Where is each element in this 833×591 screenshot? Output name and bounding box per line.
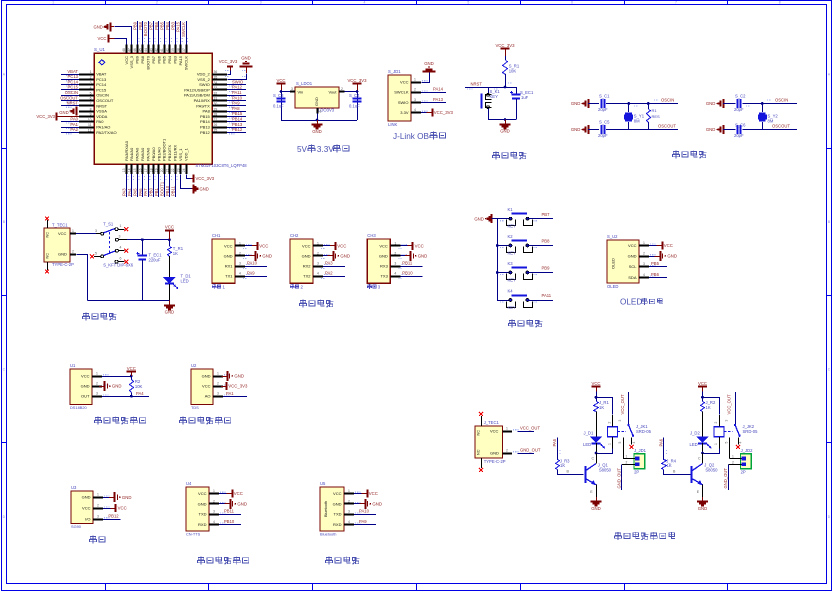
wire / net OSCIN (crystal 2) xyxy=(743,98,798,107)
svg-text:SWIO: SWIO xyxy=(232,79,244,84)
svg-text:K4: K4 xyxy=(508,289,514,294)
svg-text:1: 1 xyxy=(120,224,122,228)
ground (key circuit) xyxy=(474,214,497,223)
svg-text:OUT: OUT xyxy=(81,394,90,399)
svg-text:1K: 1K xyxy=(599,405,604,410)
svg-text:PB9: PB9 xyxy=(542,266,551,271)
svg-text:3: 3 xyxy=(90,81,92,85)
wire (power ground rail) xyxy=(77,255,170,301)
ground at MCU pin 35 VSS_2 xyxy=(228,55,253,79)
resistor J_R4 1K (base) xyxy=(662,437,691,474)
svg-text:J_D1: J_D1 xyxy=(584,431,594,436)
svg-text:VCC_3V3: VCC_3V3 xyxy=(228,384,248,389)
capacitor S_C4 0.1uF xyxy=(349,93,362,109)
svg-text:PB12: PB12 xyxy=(200,130,211,135)
svg-text:PA2/TX/AO: PA2/TX/AO xyxy=(96,130,116,135)
svg-text:PA5: PA5 xyxy=(132,188,137,196)
svg-text:J_D2: J_D2 xyxy=(690,431,700,436)
svg-text:R1: R1 xyxy=(652,108,658,113)
svg-text:VDDA: VDDA xyxy=(96,114,107,119)
svg-text:PB0/A0: PB0/A0 xyxy=(151,147,156,161)
svg-text:PA10: PA10 xyxy=(232,95,243,100)
svg-text:SWCLK: SWCLK xyxy=(183,56,188,71)
net PB11 (CH3 pin 3) xyxy=(400,261,422,267)
net PA9 (CH1 pin 4) xyxy=(245,271,267,277)
svg-text:CH1: CH1 xyxy=(212,233,221,238)
power VCC (CH1 pin 1) xyxy=(245,242,268,250)
wire xyxy=(280,90,290,120)
svg-text:VCC: VCC xyxy=(198,491,207,496)
net PB6 (OLED SDA) xyxy=(649,272,667,278)
svg-text:2: 2 xyxy=(239,251,241,255)
svg-text:PA14: PA14 xyxy=(433,87,444,92)
svg-text:5: 5 xyxy=(618,442,622,444)
label serial port 2 xyxy=(290,284,303,289)
svg-text:2P: 2P xyxy=(634,470,639,475)
svg-text:3: 3 xyxy=(643,262,645,266)
svg-text:VCC: VCC xyxy=(224,243,233,248)
svg-text:GND: GND xyxy=(424,61,434,66)
svg-text:GND: GND xyxy=(490,451,499,456)
svg-text:RES: RES xyxy=(652,114,661,119)
ground (crystal 2 bottom) xyxy=(706,125,724,134)
svg-text:GND: GND xyxy=(81,384,90,389)
svg-text:GND: GND xyxy=(418,254,428,259)
svg-text:20pF: 20pF xyxy=(598,133,608,138)
svg-text:1uF: 1uF xyxy=(521,95,529,100)
connector CH3 (serial port) xyxy=(367,233,407,283)
svg-text:S_C5: S_C5 xyxy=(599,120,610,125)
svg-text:2: 2 xyxy=(714,422,718,424)
svg-text:KEY: KEY xyxy=(508,305,517,310)
svg-text:220uF: 220uF xyxy=(149,258,161,263)
svg-text:PB6: PB6 xyxy=(154,21,159,30)
MCU U1 left pins 1-12 xyxy=(60,69,94,135)
svg-text:PB5: PB5 xyxy=(162,55,167,63)
title OLED display xyxy=(620,298,662,307)
svg-text:VCC: VCC xyxy=(276,78,285,83)
svg-text:26: 26 xyxy=(214,123,218,127)
svg-text:PC13: PC13 xyxy=(68,74,79,79)
svg-text:PC14: PC14 xyxy=(68,79,79,84)
svg-text:PA5: PA5 xyxy=(552,438,557,446)
svg-text:BOOT0: BOOT0 xyxy=(146,55,151,69)
svg-text:8: 8 xyxy=(90,107,92,111)
wire / net OSCOUT (crystal 2) xyxy=(743,124,798,130)
no-connect pin (T_TEC1 bottom) xyxy=(45,262,49,273)
svg-text:GND_OUT: GND_OUT xyxy=(520,448,541,453)
svg-text:Vout: Vout xyxy=(328,90,337,95)
svg-text:VBAT: VBAT xyxy=(67,69,78,74)
net PA11 (K4) xyxy=(528,293,554,300)
svg-text:4: 4 xyxy=(90,86,92,90)
svg-text:2: 2 xyxy=(626,461,628,465)
svg-text:CH3: CH3 xyxy=(367,233,376,238)
no-connect pin (J_TEC1 top) xyxy=(479,412,483,426)
button K3 KEY xyxy=(497,261,537,283)
ground (relay J_Q2) xyxy=(697,497,708,511)
svg-text:28: 28 xyxy=(214,113,218,117)
wire xyxy=(701,396,719,415)
svg-text:21: 21 xyxy=(166,168,170,172)
svg-text:S_KFT DIP-6X6: S_KFT DIP-6X6 xyxy=(103,263,134,268)
wire (key ground rail) xyxy=(496,219,499,300)
svg-text:35: 35 xyxy=(214,76,218,80)
net PA5 (relay input) xyxy=(552,438,561,454)
svg-text:PA9: PA9 xyxy=(247,271,255,276)
capacitor S_C5 20pF xyxy=(588,120,610,138)
svg-text:37: 37 xyxy=(182,48,186,52)
resistor J_R2 1K xyxy=(701,397,716,436)
svg-text:OSCOUT: OSCOUT xyxy=(60,95,78,100)
svg-text:13: 13 xyxy=(122,168,126,172)
svg-text:U2: U2 xyxy=(191,363,197,368)
title reset circuit xyxy=(493,152,527,159)
svg-text:19: 19 xyxy=(155,168,159,172)
svg-text:PA11/USB/DM: PA11/USB/DM xyxy=(184,93,210,98)
svg-text:GND: GND xyxy=(224,253,233,258)
net GND_OUT (relay J_JD1) xyxy=(617,465,622,491)
MCU U1 bottom pins 13-24 xyxy=(122,164,187,197)
svg-text:2: 2 xyxy=(643,252,645,256)
net PB5 (OLED SCL) xyxy=(649,261,667,266)
svg-text:J_TEC1: J_TEC1 xyxy=(484,420,500,425)
svg-text:PA0: PA0 xyxy=(70,117,78,122)
net PB7 (K1) xyxy=(528,212,554,219)
svg-text:VCC: VCC xyxy=(400,80,409,85)
svg-text:GND: GND xyxy=(112,384,122,389)
svg-text:SCL: SCL xyxy=(629,264,638,269)
svg-text:3: 3 xyxy=(618,420,622,422)
svg-text:2: 2 xyxy=(96,382,98,386)
power flag VCC (LDO input) xyxy=(276,78,285,92)
net PB10 (CH3 pin 4) xyxy=(400,271,422,277)
svg-text:U5: U5 xyxy=(320,481,326,486)
svg-text:1: 1 xyxy=(317,241,319,245)
svg-text:TYPE-C-2P: TYPE-C-2P xyxy=(484,459,506,464)
power VCC_3V3 at MCU pin 36 VDD_2 xyxy=(219,59,238,77)
svg-text:2: 2 xyxy=(217,382,219,386)
svg-text:VCC_3V3: VCC_3V3 xyxy=(196,176,215,181)
svg-text:TX2: TX2 xyxy=(303,274,311,279)
display S_U2 OLED xyxy=(607,234,656,289)
capacitor S_EC1 1uF xyxy=(510,87,534,120)
svg-text:VSS_3: VSS_3 xyxy=(129,55,134,68)
svg-text:GND: GND xyxy=(202,374,211,379)
svg-text:OSCOUT: OSCOUT xyxy=(772,124,790,129)
svg-text:3: 3 xyxy=(239,262,241,266)
svg-text:OSCIN: OSCIN xyxy=(661,98,674,103)
svg-text:48: 48 xyxy=(122,48,126,52)
svg-text:PA6: PA6 xyxy=(659,438,664,446)
svg-text:PA1/AO: PA1/AO xyxy=(96,125,110,130)
svg-text:PB12: PB12 xyxy=(232,127,243,132)
svg-text:VCC_3V3: VCC_3V3 xyxy=(36,114,55,119)
svg-text:GND: GND xyxy=(198,501,207,506)
svg-text:5: 5 xyxy=(95,252,97,256)
svg-text:PB10/TX: PB10/TX xyxy=(167,145,172,161)
svg-text:NRST: NRST xyxy=(96,103,107,108)
svg-text:STM32F103C8T6_LQFP48: STM32F103C8T6_LQFP48 xyxy=(195,163,247,168)
svg-text:KEY: KEY xyxy=(490,94,499,99)
wire / net OSCOUT (crystal 1) xyxy=(606,124,678,130)
svg-text:PB13: PB13 xyxy=(200,125,211,130)
svg-text:VCC: VCC xyxy=(337,243,346,248)
svg-text:PB10: PB10 xyxy=(224,519,235,524)
svg-text:PA10: PA10 xyxy=(247,261,258,266)
capacitor T_EC1 220uF xyxy=(137,240,163,301)
svg-text:PB14: PB14 xyxy=(200,119,211,124)
svg-text:9: 9 xyxy=(90,113,92,117)
no-connect pin (J_TEC1 bottom) xyxy=(479,458,483,472)
svg-text:PB8: PB8 xyxy=(138,21,143,30)
power flag VCC_3V3 (LDO output) xyxy=(347,78,367,92)
svg-text:18: 18 xyxy=(149,168,153,172)
svg-text:J-Link OB: J-Link OB xyxy=(393,132,429,141)
svg-text:PA15: PA15 xyxy=(176,21,181,32)
svg-text:LED: LED xyxy=(181,279,189,284)
power VCC (CH2 pin 1) xyxy=(323,242,346,250)
svg-text:PA4: PA4 xyxy=(127,188,132,196)
svg-text:TXD: TXD xyxy=(334,512,342,517)
svg-text:SWIO: SWIO xyxy=(398,100,409,105)
svg-text:TDS: TDS xyxy=(191,405,199,410)
svg-text:PB11: PB11 xyxy=(224,509,235,514)
resistor J_R3 1K (base) xyxy=(556,437,584,474)
svg-text:45: 45 xyxy=(139,48,143,52)
svg-text:PB5: PB5 xyxy=(651,261,660,266)
relay J_JK1 switch xyxy=(618,392,637,458)
svg-text:4: 4 xyxy=(364,0,366,4)
svg-text:10K: 10K xyxy=(135,384,143,389)
svg-text:PB12: PB12 xyxy=(108,513,119,518)
svg-text:0.1uF: 0.1uF xyxy=(349,104,360,109)
wire xyxy=(595,396,613,415)
svg-text:14: 14 xyxy=(128,168,132,172)
svg-text:7: 7 xyxy=(675,0,677,4)
svg-text:K1: K1 xyxy=(508,207,514,212)
svg-text:GND: GND xyxy=(571,101,581,106)
svg-text:25: 25 xyxy=(214,129,218,133)
svg-text:2: 2 xyxy=(608,422,612,424)
svg-text:PA1: PA1 xyxy=(226,391,234,396)
svg-text:VCC_3V3: VCC_3V3 xyxy=(434,110,454,115)
net PB10 (voice RXD) xyxy=(219,519,241,525)
svg-text:OLED: OLED xyxy=(620,298,642,307)
svg-text:PA10/RX: PA10/RX xyxy=(194,98,210,103)
svg-text:PA9: PA9 xyxy=(359,519,367,524)
svg-text:5: 5 xyxy=(724,442,728,444)
LED J_D1 xyxy=(583,431,605,455)
svg-text:4: 4 xyxy=(739,442,743,444)
svg-text:TXD: TXD xyxy=(199,512,207,517)
svg-text:PB11: PB11 xyxy=(402,261,413,266)
svg-text:Bluetooth: Bluetooth xyxy=(324,501,328,517)
net PA9 (bluetooth RXD) xyxy=(354,519,376,525)
transistor J_Q1 S8050 xyxy=(567,453,612,497)
wire (LDO ground rail) xyxy=(281,114,357,122)
svg-text:2: 2 xyxy=(506,448,508,452)
svg-text:1: 1 xyxy=(414,78,416,82)
svg-text:VCC_OUT: VCC_OUT xyxy=(620,394,625,414)
svg-text:11: 11 xyxy=(88,123,92,127)
power VCC (bluetooth pin 1) xyxy=(354,490,378,498)
relay J_JK2 switch xyxy=(724,392,743,458)
svg-text:4: 4 xyxy=(643,273,645,277)
svg-text:SWCLK: SWCLK xyxy=(181,22,186,37)
title serial port circuit xyxy=(300,300,334,307)
svg-text:1: 1 xyxy=(96,372,98,376)
svg-text:CN-TTS: CN-TTS xyxy=(186,532,201,537)
connector S_JD1 LINK xyxy=(388,69,428,127)
svg-text:VCC: VCC xyxy=(628,243,637,248)
svg-text:PA0: PA0 xyxy=(96,119,104,124)
connector J_JD2 2P xyxy=(728,448,753,475)
svg-text:2: 2 xyxy=(213,499,215,503)
svg-text:4: 4 xyxy=(394,272,396,276)
title relay control circuit xyxy=(615,532,675,539)
crystal S_Y2 8M xyxy=(758,104,778,130)
svg-text:20: 20 xyxy=(160,168,164,172)
relay J_JK2 SRD-05 coil xyxy=(703,415,759,454)
svg-text:PB3: PB3 xyxy=(170,21,175,30)
ground (reset) xyxy=(500,120,511,134)
ground (servo pin 1) xyxy=(103,492,131,502)
svg-text:3: 3 xyxy=(291,87,293,91)
resistor R2 10K (pull-up) xyxy=(130,376,143,396)
svg-text:3: 3 xyxy=(213,510,215,514)
sensor U2 TDS xyxy=(191,363,230,410)
svg-text:23: 23 xyxy=(176,168,180,172)
ground (CH2 pin 2) xyxy=(323,251,350,261)
svg-text:PB10: PB10 xyxy=(165,185,170,196)
svg-text:PA10: PA10 xyxy=(359,509,370,514)
svg-text:7: 7 xyxy=(90,102,92,106)
svg-text:3: 3 xyxy=(317,262,319,266)
svg-text:VCC: VCC xyxy=(369,491,378,496)
svg-text:GND: GND xyxy=(93,24,102,29)
svg-text:VCC_3V3: VCC_3V3 xyxy=(495,43,515,48)
svg-text:PB6: PB6 xyxy=(651,272,660,277)
svg-text:1: 1 xyxy=(506,426,508,430)
svg-text:GND_OUT: GND_OUT xyxy=(723,468,728,489)
svg-text:5: 5 xyxy=(467,0,469,4)
svg-text:NC: NC xyxy=(46,253,50,259)
svg-text:J_JD2: J_JD2 xyxy=(741,448,754,453)
svg-text:S_C3: S_C3 xyxy=(273,93,284,98)
svg-text:I/O: I/O xyxy=(85,517,90,522)
resistor T_R1 1K xyxy=(168,240,184,278)
svg-text:GND: GND xyxy=(302,253,311,258)
svg-text:TYPE-C-2P: TYPE-C-2P xyxy=(52,262,74,267)
svg-text:PA5/A0: PA5/A0 xyxy=(135,147,140,161)
capacitor S_C3 0.1uF xyxy=(273,93,286,109)
net VCC_OUT (J_TEC1 pin 1) xyxy=(503,426,541,432)
svg-text:1: 1 xyxy=(52,0,54,4)
svg-text:VCC: VCC xyxy=(664,243,673,248)
svg-text:OSCIN: OSCIN xyxy=(96,93,109,98)
resistor S_R1 10K xyxy=(503,61,520,75)
svg-text:5: 5 xyxy=(90,91,92,95)
resistor R1 RES (crystal 1) xyxy=(647,104,661,130)
svg-text:VCC: VCC xyxy=(379,243,388,248)
svg-text:OLED: OLED xyxy=(607,284,618,289)
svg-text:PB15: PB15 xyxy=(200,114,211,119)
svg-text:S_U2: S_U2 xyxy=(607,234,618,239)
svg-text:3: 3 xyxy=(414,98,416,102)
svg-text:T_S1: T_S1 xyxy=(103,222,114,227)
svg-text:4: 4 xyxy=(348,520,350,524)
connector CH2 (serial port) xyxy=(290,233,330,283)
no-connect pin (T_TEC1 top) xyxy=(45,217,49,228)
svg-text:S_U1: S_U1 xyxy=(94,47,106,52)
svg-text:3: 3 xyxy=(724,420,728,422)
power VCC_3V3 (reset) xyxy=(495,43,515,60)
svg-text:41: 41 xyxy=(160,48,164,52)
svg-text:1: 1 xyxy=(320,110,322,114)
power flag VCC (relay J_Q1) xyxy=(591,381,600,397)
svg-text:GND: GND xyxy=(706,101,716,106)
wire / node NRST xyxy=(465,74,516,90)
net PB9 (K3) xyxy=(528,266,554,273)
svg-text:RXD: RXD xyxy=(333,522,342,527)
svg-text:VCC: VCC xyxy=(118,506,127,511)
svg-text:C: C xyxy=(698,457,701,461)
svg-text:SWIO: SWIO xyxy=(199,82,210,87)
button S_K1 KEY (reset) xyxy=(482,87,501,120)
svg-text:VCC: VCC xyxy=(82,506,91,511)
ground (crystal 1 bottom) xyxy=(571,125,589,134)
svg-text:2: 2 xyxy=(72,249,74,253)
svg-text:PA2: PA2 xyxy=(70,127,78,132)
svg-text:8: 8 xyxy=(779,0,781,4)
svg-text:2: 2 xyxy=(348,499,350,503)
sensor U1 DS18B20 xyxy=(70,363,109,410)
svg-text:1: 1 xyxy=(732,454,734,458)
svg-text:PB7: PB7 xyxy=(542,212,551,217)
svg-text:8M: 8M xyxy=(768,119,774,124)
svg-text:AO: AO xyxy=(205,394,211,399)
svg-text:VCC: VCC xyxy=(415,243,424,248)
svg-text:T_TEC1: T_TEC1 xyxy=(52,223,68,228)
svg-text:34: 34 xyxy=(214,81,218,85)
switch T_S1 S_KFT DIP-6X6 xyxy=(90,222,134,268)
svg-text:S_C2: S_C2 xyxy=(735,94,746,99)
svg-text:39: 39 xyxy=(171,48,175,52)
capacitor S_C2 20pF xyxy=(723,94,746,112)
ground (OLED pin 2) xyxy=(649,251,677,261)
wire / net OSCIN (crystal 1) xyxy=(606,98,678,107)
power VCC (voice pin 1) xyxy=(219,490,243,498)
svg-text:KEY: KEY xyxy=(508,224,517,229)
svg-text:NRST: NRST xyxy=(471,82,483,87)
power VCC (DS18B20) xyxy=(102,366,136,378)
svg-text:PA2: PA2 xyxy=(325,271,333,276)
title servo xyxy=(90,536,105,543)
svg-text:PA7: PA7 xyxy=(143,188,148,196)
svg-text:17: 17 xyxy=(144,168,148,172)
svg-text:VCC_OUT: VCC_OUT xyxy=(520,426,540,431)
svg-text:VCC_3V3: VCC_3V3 xyxy=(219,59,238,64)
svg-text:3: 3 xyxy=(217,392,219,396)
svg-text:PA1: PA1 xyxy=(70,122,78,127)
connector J_TEC1 TYPE-C-2P (relay supply) xyxy=(475,420,506,464)
svg-text:3: 3 xyxy=(348,510,350,514)
svg-text:GND: GND xyxy=(706,127,716,132)
capacitor S_C1 20pF xyxy=(588,94,610,112)
svg-text:NC: NC xyxy=(477,430,481,436)
svg-text:PA3/RX/A0: PA3/RX/A0 xyxy=(124,140,129,161)
